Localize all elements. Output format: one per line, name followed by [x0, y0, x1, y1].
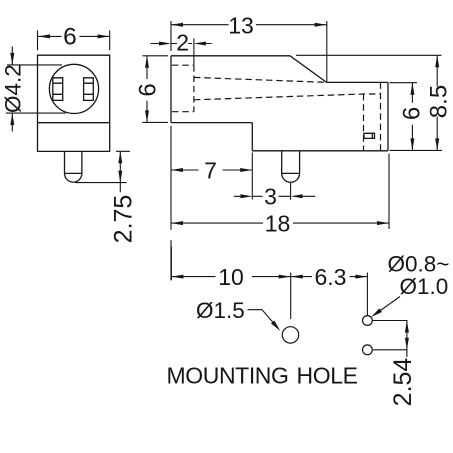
svg-text:2.75: 2.75	[109, 195, 137, 244]
svg-text:8.5: 8.5	[425, 85, 452, 118]
svg-text:18: 18	[265, 210, 291, 236]
svg-text:2: 2	[176, 29, 189, 55]
svg-text:Ø4.2: Ø4.2	[0, 64, 25, 113]
svg-text:Ø0.8~: Ø0.8~	[388, 252, 450, 277]
svg-text:7: 7	[204, 157, 217, 183]
svg-text:6: 6	[63, 23, 77, 50]
svg-text:Ø1.0: Ø1.0	[400, 274, 449, 299]
svg-text:6.3: 6.3	[315, 264, 347, 290]
svg-text:MOUNTING HOLE: MOUNTING HOLE	[167, 362, 358, 388]
svg-text:6: 6	[135, 83, 162, 96]
svg-text:2.54: 2.54	[389, 358, 417, 407]
svg-text:10: 10	[218, 264, 244, 290]
svg-text:Ø1.5: Ø1.5	[196, 298, 245, 323]
svg-text:3: 3	[264, 184, 277, 210]
svg-text:13: 13	[228, 12, 254, 38]
svg-text:6: 6	[399, 107, 426, 120]
